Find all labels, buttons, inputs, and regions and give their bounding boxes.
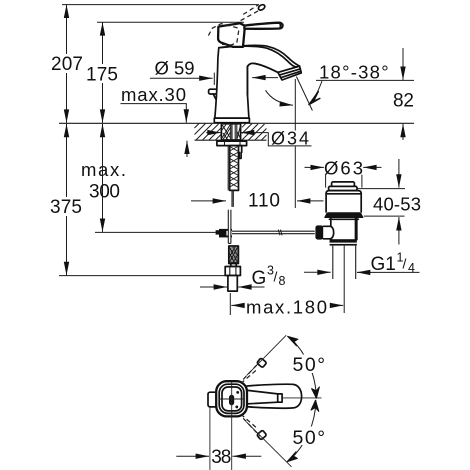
dashed raised lever edge 1 (243, 5, 258, 15)
ext line at hose nut bottom (375) (59, 275, 225, 277)
Ø59 right arrow at spout root (252, 77, 278, 79)
horizontal pop-up rod (216, 230, 315, 236)
pull rod upper segment (228, 146, 230, 190)
arc arrow to vertical (266, 90, 294, 105)
svg-text:207: 207 (51, 54, 83, 75)
handle squircle inner (222, 387, 242, 411)
svg-text:50°: 50° (293, 354, 326, 376)
18-38 underline / 82 top ref (316, 79, 414, 81)
spout outer curve (redraw bold) (221, 46, 300, 67)
small dot upper (236, 391, 239, 394)
small dot lower (235, 406, 238, 409)
horizontal centerline (219, 398, 245, 400)
handle cap solid (218, 23, 245, 47)
faucet body and spout (215, 45, 300, 118)
deck hatching left (195, 124, 222, 141)
mounting nut (217, 141, 247, 145)
drain upper cylinder (326, 191, 361, 212)
tailpipe (333, 246, 356, 313)
knob neck and boss (323, 226, 333, 239)
18-38 curved leader arrow (312, 81, 323, 102)
faucet pull-rod knob behind body (209, 89, 219, 102)
svg-text:50°: 50° (293, 427, 326, 449)
stream diagonal line (296, 77, 312, 111)
ext line at rod level (max.300) (95, 231, 216, 233)
dim 175 line (86, 22, 119, 123)
svg-text:G1: G1 (371, 254, 396, 275)
svg-text:/: / (403, 256, 407, 272)
Ø63 left arrow (305, 166, 324, 168)
deck top line (59, 122, 414, 124)
upper arc arrowheads (288, 336, 298, 346)
40-53 bottom arrow (398, 217, 400, 244)
spout inner curve (247, 63, 278, 95)
dim 82 bottom arrow (402, 124, 404, 140)
G1 1/4 underline (358, 271, 420, 273)
vertical centerline / 38 right ext (231, 382, 233, 470)
110 left arrow (191, 200, 226, 202)
upper dashed lever edges (243, 362, 260, 380)
lower 50 arc (289, 400, 326, 460)
rod knurled knob (315, 225, 323, 239)
lower dashed lever tip cap (257, 430, 267, 440)
stream vertical line (294, 79, 296, 208)
dim 82 top arrow (402, 48, 404, 80)
svg-text:G: G (252, 268, 267, 289)
38 right arrow (233, 455, 262, 457)
raised lever tip ellipse (257, 4, 265, 12)
lever axis line right (282, 397, 321, 399)
svg-text:Ø 59: Ø 59 (155, 58, 195, 79)
upper 50 centerline (247, 335, 287, 375)
rod clamp block (219, 229, 232, 238)
drain lower body (331, 218, 357, 239)
max.180 dimension arrows (231, 304, 243, 306)
thin pipe below stud (232, 190, 233, 207)
drain bottom collar (330, 239, 357, 245)
G3/8 right arrow (238, 286, 264, 288)
handle top-view tab left (208, 392, 218, 407)
label G 3/8 (252, 264, 286, 290)
G3/8 left arrow (200, 286, 227, 288)
svg-text:375: 375 (50, 197, 82, 218)
upper 50 arc (290, 337, 326, 398)
lower arc arrowheads (311, 400, 319, 411)
pull rod lower segment (228, 210, 231, 244)
handle squircle outer (216, 381, 247, 416)
svg-text:Ø63: Ø63 (324, 158, 363, 179)
dashed cap outline (208, 24, 239, 45)
svg-text:max.180: max.180 (246, 297, 327, 318)
leader Ø59 underline arrow (150, 77, 213, 79)
handle squircle middle (219, 384, 244, 413)
side nipple (239, 146, 242, 159)
Ø63 right arrow (363, 166, 381, 168)
supply hose braided section (229, 246, 239, 264)
center black pill (229, 395, 234, 405)
svg-text:110: 110 (248, 191, 280, 212)
max.180 ext stub left (229, 293, 231, 315)
svg-text:40-53: 40-53 (373, 194, 421, 215)
lower dashed lever edges (243, 418, 260, 436)
dim 207 line (49, 5, 85, 123)
Ø63 ext line right (361, 175, 363, 188)
upper dashed lever tip cap (257, 358, 267, 368)
faucet base plate (214, 118, 249, 123)
white mask for Ø34 label (269, 131, 313, 147)
svg-text:300: 300 (89, 182, 120, 203)
svg-text:max.30: max.30 (121, 84, 186, 105)
threaded stud with hatch (230, 146, 239, 191)
dim max.300 line (102, 124, 104, 232)
Ø59 ext stub left (213, 73, 215, 85)
Ø63 ext line left (325, 175, 327, 188)
Ø34 left arrow (206, 132, 221, 134)
hose hex nut (225, 267, 240, 276)
svg-text:175: 175 (86, 65, 118, 86)
svg-text:/: / (274, 269, 278, 285)
G1 1/4 arrow to pipe (357, 271, 371, 273)
40-53 bottom ref line (364, 215, 405, 217)
handle cap facet line (221, 42, 233, 46)
shank through deck (221, 124, 240, 140)
pipe left arrow (304, 271, 331, 273)
svg-text:38: 38 (211, 447, 231, 468)
ext line top of raised lever (62, 4, 259, 6)
hose collar (231, 264, 236, 267)
38 left arrow (176, 455, 209, 457)
40-53 top arrow (398, 159, 400, 188)
svg-text:8: 8 (279, 274, 286, 288)
drain flange (324, 212, 363, 218)
Ø34 right arrow and step leader (241, 133, 312, 146)
leader max.30 underline and arrow (121, 104, 187, 123)
lever solid (244, 23, 282, 29)
deck bottom line (195, 139, 267, 141)
lever tip face (279, 23, 280, 29)
110 right arrow (297, 200, 324, 202)
40-53 top ref line (357, 188, 405, 190)
deck hatching right (242, 123, 267, 140)
svg-text:18°-38°: 18°-38° (319, 62, 389, 83)
label G1 1/4 (371, 251, 416, 276)
lower 50 centerline (247, 422, 292, 467)
lever inner taper (248, 390, 282, 403)
dashed raised lever edge 2 (241, 10, 261, 21)
svg-text:82: 82 (393, 91, 414, 112)
dim 375 line (49, 124, 84, 275)
arrow up at deck underside (max.30) (186, 141, 188, 157)
aerator (278, 66, 301, 80)
38 left ext line (209, 408, 211, 470)
ext line top of rest lever (97, 21, 244, 23)
svg-text:Ø34: Ø34 (271, 129, 309, 149)
hose thread tube G3/8 (228, 276, 237, 292)
drain plug knob (329, 182, 357, 191)
lever top view outline (245, 384, 302, 408)
